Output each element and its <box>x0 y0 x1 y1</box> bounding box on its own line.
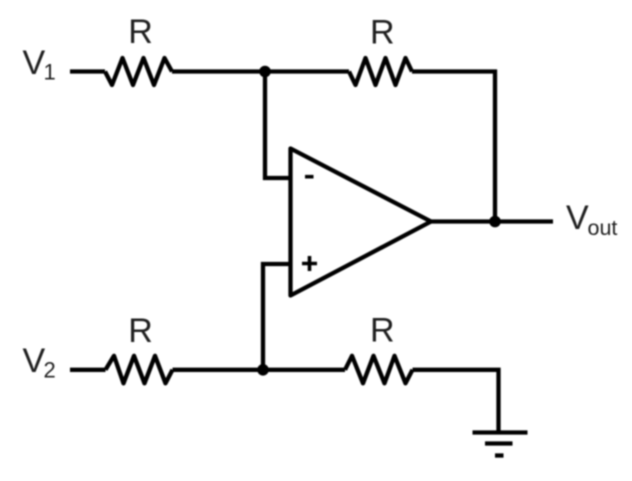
label R of R3 <box>128 312 153 350</box>
wire R2 to output node <box>412 72 495 222</box>
svg-text:V: V <box>23 44 46 82</box>
node B junction dot <box>257 364 269 376</box>
node A junction dot <box>259 66 271 78</box>
svg-text:2: 2 <box>44 358 56 383</box>
svg-text:R: R <box>128 13 153 51</box>
minus sign inverting input <box>305 175 314 179</box>
svg-text:V: V <box>566 199 589 237</box>
ground <box>473 433 528 456</box>
resistor R3 <box>106 356 173 384</box>
label R of R4 <box>370 312 395 350</box>
node output junction dot <box>489 216 501 228</box>
wire V2 lead <box>70 368 106 372</box>
label R of R1 <box>128 13 153 51</box>
node Vout <box>566 199 617 240</box>
wire V1 lead <box>70 69 105 73</box>
resistor R2 feedback <box>349 58 412 85</box>
label R of R2 <box>370 14 395 52</box>
svg-text:1: 1 <box>44 60 56 85</box>
node V1 <box>23 44 56 85</box>
node V2 <box>23 342 56 383</box>
wire R1 to node A and to R2 <box>172 69 349 73</box>
plus sign non-inverting input <box>302 256 317 271</box>
svg-text:V: V <box>23 342 46 380</box>
wire R4 to ground <box>413 370 499 431</box>
wire R3 to node B <box>173 368 346 372</box>
svg-text:R: R <box>370 14 395 52</box>
op-amp U1 <box>291 149 432 296</box>
svg-text:R: R <box>128 312 153 350</box>
svg-text:R: R <box>370 312 395 350</box>
wire non-inverting input to node B <box>263 264 291 370</box>
wire op-amp output <box>429 219 553 223</box>
svg-text:out: out <box>588 216 618 240</box>
resistor R1 <box>105 58 172 85</box>
resistor R4 <box>345 356 413 384</box>
wire node A to inverting input <box>265 72 291 179</box>
